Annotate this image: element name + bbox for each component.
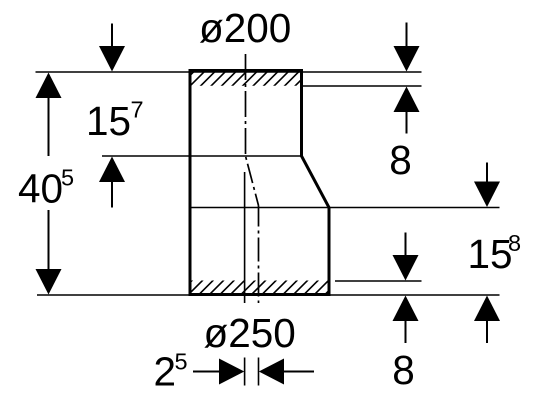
top hatch band (spigot end face) <box>178 71 321 88</box>
extension line shoulder (y=156) <box>102 155 302 157</box>
svg-text:8: 8 <box>389 137 412 183</box>
centerline transition (dash-dot slant) <box>246 156 259 206</box>
svg-text:7: 7 <box>131 97 144 123</box>
svg-text:40: 40 <box>18 166 63 212</box>
centerline ø250 (dash-dot vertical) <box>258 206 260 304</box>
dimension 2.5 arrows (y=371.5) <box>193 359 314 385</box>
dimension 8 bottom-right arrows (x=405.5) <box>393 233 419 344</box>
extension line socket depth top (y=86) <box>302 85 422 87</box>
dimension 8 top-right arrows (x=406.5) <box>394 23 420 134</box>
dimension 15.8 arrows (x=487) <box>474 163 500 344</box>
svg-text:ø200: ø200 <box>199 5 291 51</box>
dimension 40.5 line with arrows (x=48.5) <box>36 73 62 295</box>
svg-text:15: 15 <box>468 231 513 277</box>
dimension 15.7 arrows (x=112) <box>99 24 125 208</box>
svg-text:5: 5 <box>61 165 74 191</box>
extension line slant bottom (y=207.5) <box>191 207 500 209</box>
centerline ø200 (dash-dot vertical) <box>245 54 247 156</box>
bottom hatch band (socket end face) <box>178 279 352 295</box>
extension line bottom (y=295) <box>37 294 500 296</box>
extension line socket depth bottom (y=281) <box>335 280 422 282</box>
svg-text:5: 5 <box>175 349 188 375</box>
svg-text:2: 2 <box>154 349 177 395</box>
svg-text:ø250: ø250 <box>204 310 296 356</box>
extension line top (y=72) <box>36 71 422 73</box>
svg-text:15: 15 <box>86 98 131 144</box>
svg-text:8: 8 <box>508 230 521 256</box>
extension line ø200 centre (solid) <box>244 172 246 386</box>
reducer body outline <box>190 71 329 295</box>
extension line ø250 centre lower (solid) <box>258 358 260 386</box>
svg-text:8: 8 <box>392 347 415 393</box>
